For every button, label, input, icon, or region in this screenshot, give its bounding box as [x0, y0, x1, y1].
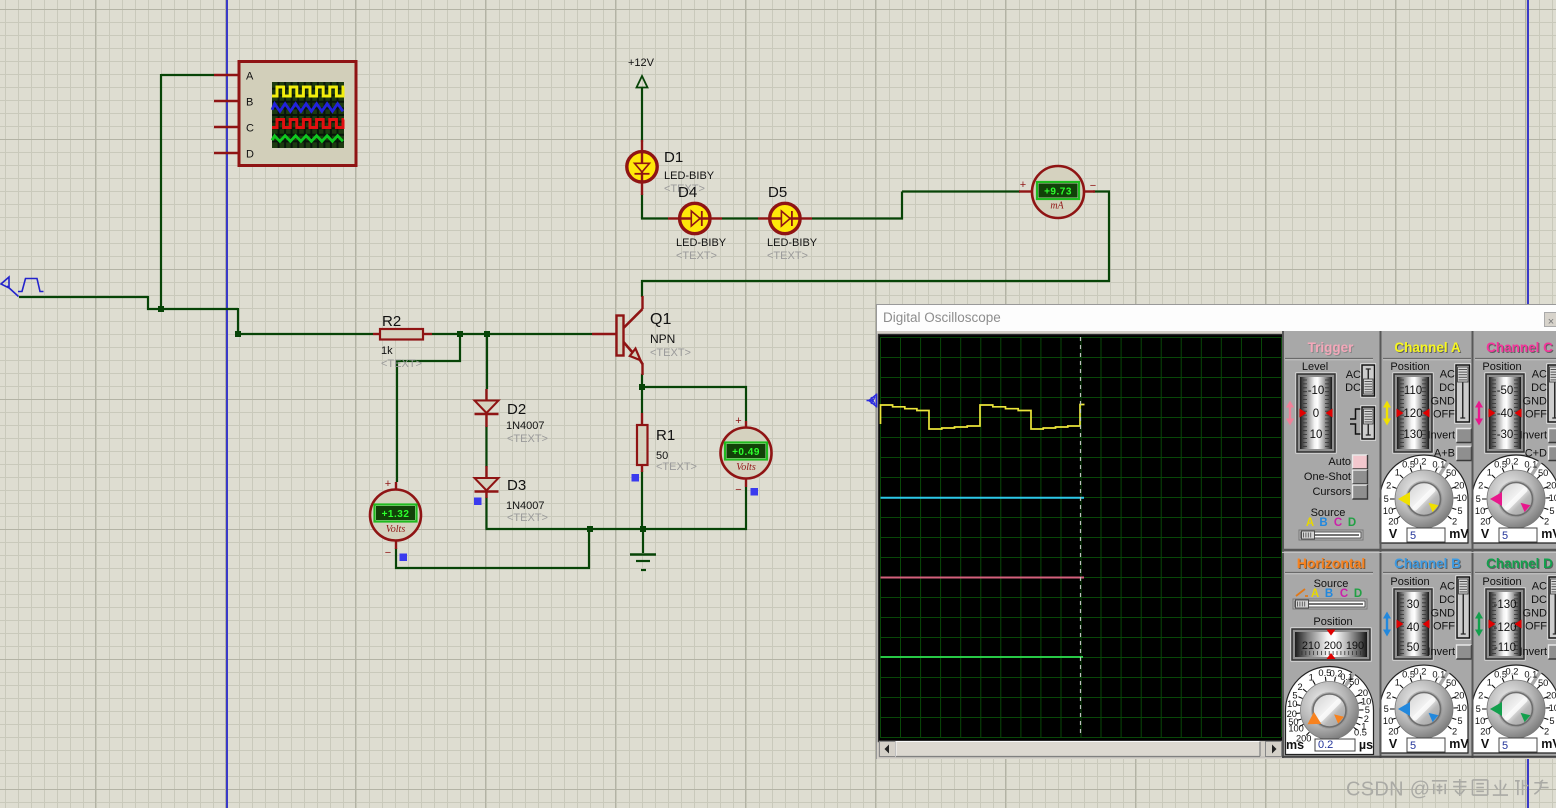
svg-text:0.1: 0.1 — [1524, 669, 1537, 679]
svg-text:0.1: 0.1 — [1432, 669, 1445, 679]
wire collector to return rail — [642, 192, 1109, 298]
wire D4 to D1 — [642, 194, 668, 219]
svg-text:50: 50 — [1446, 678, 1456, 688]
svg-text:D4: D4 — [678, 184, 697, 201]
svg-text:5: 5 — [1457, 716, 1462, 726]
svg-text:2: 2 — [1544, 726, 1549, 736]
diode D3 1N4007 — [475, 466, 548, 524]
svg-text:0: 0 — [1313, 408, 1319, 420]
svg-text:5: 5 — [1410, 530, 1416, 542]
svg-text:Position: Position — [1390, 361, 1429, 373]
svg-text:D2: D2 — [507, 401, 526, 418]
svg-text:R2: R2 — [382, 313, 401, 330]
svg-text:D: D — [1348, 517, 1356, 529]
svg-text:+: + — [735, 415, 741, 427]
svg-text:10: 10 — [1287, 699, 1297, 709]
LED D5 — [758, 184, 818, 262]
svg-text:-110: -110 — [1494, 642, 1516, 654]
svg-text:10: 10 — [1383, 716, 1393, 726]
panel separators — [1282, 331, 1556, 758]
oscilloscope window — [876, 304, 1556, 759]
svg-text:2: 2 — [1478, 691, 1483, 701]
svg-text:−: − — [385, 547, 391, 559]
VM2 handle — [751, 488, 759, 496]
svg-text:OFF: OFF — [1433, 409, 1455, 421]
sheet border right — [1527, 0, 1529, 808]
ammeter +9.73 mA — [1019, 166, 1096, 218]
svg-text:Invert: Invert — [1519, 646, 1547, 658]
svg-text:AC: AC — [1440, 581, 1455, 593]
svg-text:-40: -40 — [1497, 408, 1514, 420]
power +12V — [628, 57, 655, 88]
svg-text:+12V: +12V — [628, 57, 655, 69]
node rail/ground — [640, 526, 646, 532]
svg-text:OFF: OFF — [1525, 409, 1547, 421]
trigger marker — [867, 394, 877, 408]
svg-text:<TEXT>: <TEXT> — [507, 433, 548, 445]
wire junction to VM1 — [397, 334, 460, 482]
svg-text:20: 20 — [1546, 691, 1556, 701]
pin B — [214, 97, 253, 109]
svg-text:120: 120 — [1403, 408, 1422, 420]
voltmeter VM2 +0.49 — [721, 415, 772, 496]
analyser mini display — [272, 82, 344, 148]
svg-text:2: 2 — [1386, 691, 1391, 701]
channel C panel — [1472, 340, 1556, 543]
node emitter junction — [639, 384, 645, 390]
svg-text:10: 10 — [1475, 506, 1485, 516]
svg-text:50: 50 — [1538, 678, 1548, 688]
time cursor — [1080, 337, 1082, 737]
svg-text:0.2: 0.2 — [1506, 457, 1519, 467]
svg-text:<TEXT>: <TEXT> — [656, 461, 697, 473]
svg-text:5: 5 — [1502, 530, 1508, 542]
svg-text:AC: AC — [1532, 581, 1547, 593]
pin D — [214, 149, 254, 161]
svg-text:+0.49: +0.49 — [732, 447, 760, 458]
svg-text:5: 5 — [1410, 740, 1416, 752]
svg-text:−: − — [735, 484, 741, 496]
R1 handle — [632, 474, 640, 482]
svg-text:ms: ms — [1286, 738, 1304, 752]
svg-text:10: 10 — [1475, 716, 1485, 726]
svg-text:Horizontal: Horizontal — [1297, 555, 1365, 571]
channel C trace — [881, 577, 1085, 579]
node R2/VM1 junction — [457, 331, 463, 337]
channel A panel — [1380, 340, 1472, 543]
svg-text:Position: Position — [1313, 616, 1352, 628]
svg-text:1: 1 — [1395, 678, 1400, 688]
svg-text:Invert: Invert — [1519, 430, 1547, 442]
svg-text:D: D — [246, 149, 254, 161]
svg-text:B: B — [246, 97, 253, 109]
svg-text:5: 5 — [1502, 740, 1508, 752]
logic analyser instrument — [239, 62, 356, 166]
svg-text:-50: -50 — [1497, 385, 1514, 397]
svg-text:GND: GND — [1523, 395, 1548, 407]
svg-text:LED-BIBY: LED-BIBY — [676, 237, 727, 249]
voltmeter VM1 +1.32 — [370, 478, 421, 559]
trigger panel — [1285, 340, 1376, 540]
svg-text:5: 5 — [1476, 494, 1481, 504]
svg-text:D1: D1 — [664, 149, 683, 166]
svg-text:DC: DC — [1439, 382, 1455, 394]
scope graticule — [880, 337, 1282, 738]
svg-text:20: 20 — [1480, 726, 1490, 736]
svg-text:V: V — [1481, 527, 1490, 541]
wire VM1 bottom return — [396, 529, 589, 568]
svg-text:20: 20 — [1454, 691, 1464, 701]
svg-text:<TEXT>: <TEXT> — [507, 512, 548, 524]
svg-text:A: A — [1311, 588, 1319, 600]
sheet border left — [226, 0, 228, 808]
svg-text:5: 5 — [1549, 716, 1554, 726]
svg-text:C: C — [246, 123, 254, 135]
svg-text:µs: µs — [1359, 738, 1373, 752]
svg-text:A: A — [246, 71, 254, 83]
scrollbar — [879, 741, 1282, 757]
svg-text:1: 1 — [1487, 468, 1492, 478]
svg-text:OFF: OFF — [1525, 621, 1547, 633]
svg-text:C: C — [1334, 517, 1342, 529]
svg-text:Channel B: Channel B — [1394, 556, 1461, 571]
svg-text:LED-BIBY: LED-BIBY — [767, 237, 818, 249]
wire generator to node A — [19, 297, 238, 309]
svg-text:D5: D5 — [768, 184, 787, 201]
channel A trace — [881, 405, 1085, 430]
wire R2 to Q1 base — [432, 333, 592, 335]
svg-text:1: 1 — [1309, 673, 1314, 683]
svg-text:Level: Level — [1302, 361, 1328, 373]
svg-text:5: 5 — [1384, 704, 1389, 714]
svg-text:50: 50 — [1538, 468, 1548, 478]
svg-text:One-Shot: One-Shot — [1304, 471, 1351, 483]
svg-text:Position: Position — [1482, 576, 1521, 588]
svg-text:V: V — [1481, 737, 1490, 751]
svg-text:Cursors: Cursors — [1312, 486, 1351, 498]
svg-text:B: B — [1319, 517, 1327, 529]
resistor R2 1k — [373, 313, 432, 370]
svg-text:1N4007: 1N4007 — [506, 500, 545, 512]
channel B trace — [881, 497, 1085, 499]
svg-text:0.2: 0.2 — [1318, 739, 1333, 751]
node junction at generator/analyser — [158, 306, 164, 312]
svg-text:Channel C: Channel C — [1486, 340, 1553, 355]
svg-text:0.1: 0.1 — [1432, 459, 1445, 469]
svg-text:-130: -130 — [1493, 599, 1516, 611]
svg-text:NPN: NPN — [650, 332, 675, 346]
wire D3 to ground rail — [487, 487, 747, 529]
svg-text:<TEXT>: <TEXT> — [650, 347, 691, 359]
svg-text:AC: AC — [1346, 369, 1361, 381]
svg-text:100: 100 — [1288, 723, 1304, 733]
svg-text:Volts: Volts — [386, 524, 406, 535]
svg-text:5: 5 — [1476, 704, 1481, 714]
svg-text:<TEXT>: <TEXT> — [676, 250, 717, 262]
svg-text:1: 1 — [1395, 468, 1400, 478]
wire junction to D2 — [486, 334, 488, 389]
watermark — [1346, 778, 1555, 802]
svg-text:2: 2 — [1452, 516, 1457, 526]
svg-text:30: 30 — [1407, 599, 1420, 611]
svg-text:0.2: 0.2 — [1414, 667, 1427, 677]
svg-text:mV: mV — [1449, 527, 1469, 541]
oscilloscope title bar — [877, 305, 1556, 331]
svg-text:OFF: OFF — [1433, 621, 1455, 633]
svg-text:20: 20 — [1546, 481, 1556, 491]
svg-text:0.1: 0.1 — [1524, 459, 1537, 469]
wire Q1 emitter node — [642, 374, 746, 421]
svg-text:Position: Position — [1390, 576, 1429, 588]
pin A — [214, 71, 254, 83]
svg-text:mV: mV — [1449, 737, 1469, 751]
scope screen — [877, 332, 1285, 743]
node R2/D2 junction — [484, 331, 490, 337]
horizontal panel — [1285, 555, 1374, 755]
svg-text:DC: DC — [1531, 382, 1547, 394]
svg-text:mV: mV — [1541, 737, 1556, 751]
svg-text:2: 2 — [1452, 726, 1457, 736]
svg-text:C: C — [1340, 588, 1348, 600]
close button — [1544, 312, 1556, 327]
wire ammeter plus — [812, 192, 1020, 219]
svg-text:Volts: Volts — [736, 462, 756, 473]
svg-text:+: + — [1020, 179, 1026, 191]
svg-text:40: 40 — [1407, 622, 1420, 634]
svg-text:50: 50 — [1349, 677, 1359, 687]
svg-text:+: + — [385, 478, 391, 490]
svg-text:D3: D3 — [507, 477, 526, 494]
channel D trace — [881, 656, 1084, 658]
svg-text:190: 190 — [1346, 640, 1364, 652]
svg-text:10: 10 — [1310, 429, 1323, 441]
svg-text:Auto: Auto — [1328, 456, 1351, 468]
svg-text:20: 20 — [1454, 481, 1464, 491]
svg-text:DC: DC — [1531, 594, 1547, 606]
svg-text:Channel D: Channel D — [1486, 556, 1553, 571]
svg-text:-120: -120 — [1493, 622, 1516, 634]
resistor R1 50 — [637, 413, 697, 473]
svg-text:110: 110 — [1404, 385, 1422, 397]
wire D5 to D4 — [722, 217, 758, 219]
LED D1 — [627, 140, 715, 195]
svg-text:50: 50 — [1446, 468, 1456, 478]
svg-text:Q1: Q1 — [650, 311, 671, 328]
svg-text:AC: AC — [1532, 369, 1547, 381]
svg-text:1N4007: 1N4007 — [506, 420, 545, 432]
svg-text:5: 5 — [1549, 506, 1554, 516]
svg-text:130: 130 — [1403, 429, 1422, 441]
svg-text:AC: AC — [1440, 369, 1455, 381]
wire analyser pin A down — [161, 74, 214, 310]
svg-text:20: 20 — [1388, 726, 1398, 736]
svg-text:+1.32: +1.32 — [382, 509, 410, 520]
svg-text:GND: GND — [1523, 607, 1548, 619]
svg-text:1: 1 — [1487, 678, 1492, 688]
svg-text:V: V — [1389, 737, 1398, 751]
channel D panel — [1472, 556, 1556, 753]
svg-text:210: 210 — [1302, 640, 1320, 652]
svg-text:GND: GND — [1431, 395, 1456, 407]
pin C — [214, 123, 254, 135]
channel B panel — [1380, 556, 1472, 753]
svg-text:2: 2 — [1478, 481, 1483, 491]
svg-text:1k: 1k — [381, 345, 393, 357]
svg-text:0.2: 0.2 — [1506, 667, 1519, 677]
transistor Q1 NPN — [592, 296, 691, 375]
svg-text:−: − — [1090, 180, 1096, 192]
ground — [630, 529, 656, 570]
svg-text:2: 2 — [1386, 481, 1391, 491]
svg-text:B: B — [1325, 588, 1333, 600]
svg-text:10: 10 — [1549, 493, 1556, 503]
svg-text:5: 5 — [1384, 494, 1389, 504]
LED D4 — [668, 184, 727, 262]
svg-text:0.2: 0.2 — [1414, 457, 1427, 467]
svg-text:Trigger: Trigger — [1308, 340, 1355, 355]
svg-text:Invert: Invert — [1427, 646, 1455, 658]
svg-text:D: D — [1354, 588, 1362, 600]
svg-text:-30: -30 — [1497, 429, 1514, 441]
wire D2 to D3 — [485, 426, 487, 467]
svg-text:DC: DC — [1345, 382, 1361, 394]
svg-text:mA: mA — [1050, 201, 1064, 212]
svg-text:<TEXT>: <TEXT> — [381, 358, 422, 370]
svg-text:5: 5 — [1457, 506, 1462, 516]
svg-text:2: 2 — [1544, 516, 1549, 526]
svg-text:10: 10 — [1457, 703, 1467, 713]
diode D2 1N4007 — [475, 389, 548, 445]
wire node to R2 — [238, 308, 373, 334]
svg-text:R1: R1 — [656, 427, 675, 444]
svg-text:10: 10 — [1549, 703, 1556, 713]
svg-text:mV: mV — [1541, 527, 1556, 541]
svg-text:50: 50 — [1407, 642, 1420, 654]
D3 handle — [474, 498, 482, 506]
pulse generator source — [1, 277, 44, 297]
svg-text:GND: GND — [1431, 607, 1456, 619]
svg-text:DC: DC — [1439, 594, 1455, 606]
svg-text:0.5: 0.5 — [1354, 727, 1367, 737]
node rail/VM1 return — [587, 526, 593, 532]
svg-text:-10: -10 — [1308, 385, 1325, 397]
svg-text:<TEXT>: <TEXT> — [767, 250, 808, 262]
svg-text:10: 10 — [1383, 506, 1393, 516]
svg-text:+9.73: +9.73 — [1044, 186, 1072, 197]
svg-text:V: V — [1389, 527, 1398, 541]
wire R1 bottom to rail — [641, 471, 643, 529]
svg-text:20: 20 — [1388, 516, 1398, 526]
svg-text:LED-BIBY: LED-BIBY — [664, 170, 715, 182]
svg-text:10: 10 — [1457, 493, 1467, 503]
wire +12V to D1 — [641, 87, 643, 142]
svg-text:2: 2 — [1298, 682, 1303, 692]
svg-text:Position: Position — [1482, 361, 1521, 373]
svg-text:Channel A: Channel A — [1394, 340, 1461, 355]
svg-text:20: 20 — [1480, 516, 1490, 526]
VM1 handle — [400, 554, 408, 562]
node corner R2 input — [235, 331, 241, 337]
svg-text:Invert: Invert — [1427, 430, 1455, 442]
svg-text:A: A — [1306, 517, 1314, 529]
svg-text:200: 200 — [1324, 640, 1342, 652]
